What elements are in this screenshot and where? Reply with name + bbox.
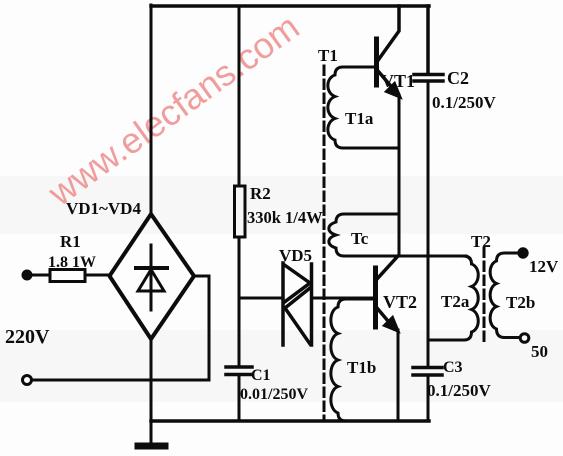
scan background tint band upper <box>0 176 563 234</box>
svg-text:R1: R1 <box>60 232 81 251</box>
ground <box>138 421 165 446</box>
wire right rail top (corner to C2) <box>426 6 430 73</box>
transistor VT1 <box>377 6 401 97</box>
T2 core dashed line <box>483 248 486 341</box>
svg-text:220V: 220V <box>5 326 50 348</box>
wire terminal to R1 <box>31 274 50 277</box>
svg-text:T1: T1 <box>318 46 338 65</box>
capacitor C3 <box>413 368 442 376</box>
svg-text:1.8 1W: 1.8 1W <box>48 254 96 271</box>
wire right rail bottom (C3 to rail) <box>427 376 430 421</box>
wire VT1 emitter vertical <box>398 95 401 256</box>
node upper 220V terminal <box>23 271 31 279</box>
T1 winding T1a <box>328 67 399 148</box>
wire left rail upper <box>150 5 153 214</box>
wire VD5 to VT2 base <box>313 297 374 300</box>
wire node to VD5 <box>239 297 281 300</box>
svg-text:VT2: VT2 <box>383 292 417 312</box>
T2 winding T2b <box>490 253 521 338</box>
wire middle vertical top (rail to R2) <box>238 6 241 186</box>
wire VT2 emitter vertical <box>397 330 400 421</box>
svg-text:T1a: T1a <box>345 109 374 128</box>
svg-text:0.1/250V: 0.1/250V <box>427 381 491 400</box>
wire bottom rail <box>151 419 429 423</box>
svg-text:0.01/250V: 0.01/250V <box>240 386 308 403</box>
wire R2 to C1 <box>238 237 241 366</box>
resistor R1 <box>50 270 85 282</box>
svg-text:T2: T2 <box>471 232 491 251</box>
svg-text:12V: 12V <box>529 257 559 276</box>
T1 core dashed line <box>323 66 326 421</box>
svg-text:R2: R2 <box>250 184 271 203</box>
wire Tc to T2a <box>398 255 466 258</box>
wire right rail middle (C2 to C3) <box>427 82 430 366</box>
node 12V terminal dot <box>519 249 527 257</box>
node lower 220V terminal <box>23 376 32 385</box>
capacitor C1 <box>226 367 252 375</box>
wire R1 to bridge <box>85 274 110 277</box>
svg-text:0.1/250V: 0.1/250V <box>432 93 496 112</box>
svg-text:VD5: VD5 <box>279 246 312 265</box>
bridge rectifier VD1~VD4 <box>110 214 195 339</box>
svg-text:C2: C2 <box>447 68 469 88</box>
wire C1 to bottom rail <box>238 376 241 421</box>
scan background tint band lower <box>0 330 563 402</box>
node 50Hz output terminal <box>520 334 529 343</box>
svg-text:T1b: T1b <box>347 358 376 377</box>
resistor R2 <box>235 186 246 237</box>
T1 winding T1b <box>331 299 398 421</box>
capacitor C2 <box>414 75 443 82</box>
svg-text:VT1: VT1 <box>381 71 415 91</box>
svg-text:C1: C1 <box>251 367 271 384</box>
T1 winding Tc <box>329 214 398 256</box>
wire top rail <box>151 4 429 8</box>
svg-text:330k 1/4W: 330k 1/4W <box>247 208 323 227</box>
svg-text:T2b: T2b <box>506 293 535 312</box>
wire lower terminal to bridge right vertex <box>32 276 210 380</box>
wire left rail lower <box>150 339 153 421</box>
svg-text:50: 50 <box>531 342 548 361</box>
svg-text:T2a: T2a <box>441 292 470 311</box>
svg-text:VD1~VD4: VD1~VD4 <box>66 199 141 218</box>
T2 winding T2a <box>428 256 478 340</box>
transistor VT2 <box>376 256 399 331</box>
svg-text:Tc: Tc <box>351 229 369 248</box>
diac VD5 <box>283 263 312 345</box>
svg-text:C3: C3 <box>443 359 463 376</box>
diode inside bridge <box>136 245 167 310</box>
